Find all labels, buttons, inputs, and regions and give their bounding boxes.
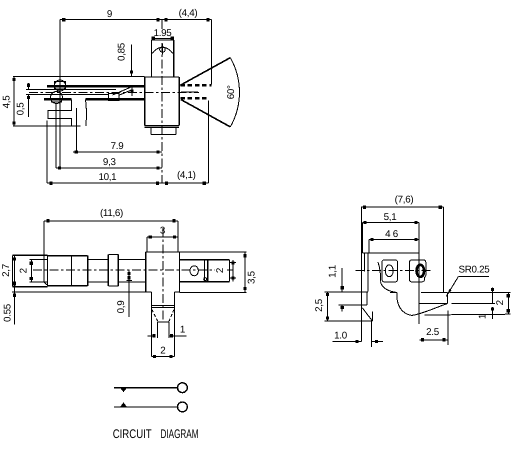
- VIEW1: fan arc: [230, 58, 239, 127]
- VIEW2: flange1 divider: [71, 256, 73, 286]
- VIEW2: plunger cone dashed left: [152, 310, 158, 322]
- VIEW1: body rect: [145, 77, 180, 128]
- VIEW1: bracket right edge: [85, 99, 88, 126]
- VIEW2: dimension 2 left: [19, 260, 33, 282]
- VIEW1: dimension 9,3: [56, 157, 162, 170]
- VIEW1: lower dashed lever line: [181, 97, 210, 100]
- VIEW3: SR0.25 leader diagonal: [446, 277, 458, 297]
- svg-text:2: 2: [19, 268, 30, 273]
- VIEW2: shaft between flanges bottom: [88, 281, 109, 283]
- VIEW3 side: dimension (7,6): [361, 194, 443, 209]
- VIEW1: contact spring diagonal a: [113, 87, 131, 95]
- svg-text:10,1: 10,1: [98, 172, 116, 183]
- VIEW1: extension line center top: [161, 20, 163, 30]
- VIEW2: lever shaft top line: [30, 259, 48, 261]
- svg-text:1.0: 1.0: [334, 331, 348, 342]
- VIEW2: shaft between flanges top: [88, 258, 109, 260]
- VIEW2: dimension 2 terminal: [215, 260, 236, 282]
- VIEW3: dimension 1 right: [478, 288, 495, 320]
- VIEW2: shaft to body top: [118, 258, 145, 260]
- VIEW3: tip bottom line: [325, 320, 373, 322]
- svg-text:(11,6): (11,6): [100, 208, 123, 219]
- VIEW2: body bottom right seg: [174, 291, 179, 293]
- svg-text:1: 1: [180, 325, 185, 336]
- VIEW1: extension (4,1) right: [207, 101, 209, 184]
- VIEW3: right ext line bottom: [425, 313, 511, 316]
- VIEW1: extension line left (pivot vertical): [59, 20, 61, 168]
- VIEW2: plunger tip ext left: [157, 322, 159, 338]
- VIEW3: bend top segment: [390, 292, 397, 294]
- VIEW1: short center solid line right: [181, 91, 198, 93]
- VIEW2: dimension 0.55: [3, 282, 17, 325]
- svg-text:0.55: 0.55: [3, 303, 14, 322]
- VIEW3: extension 5,1 left: [361, 223, 363, 253]
- VIEW2: plunger tip flat: [158, 321, 169, 323]
- VIEW3: foot right edge: [446, 293, 448, 304]
- VIEW1: bracket notch: [48, 99, 72, 126]
- VIEW1: lever thin line a: [26, 88, 116, 90]
- VIEW2: terminal bend squiggle: [204, 278, 207, 281]
- svg-text:4 6: 4 6: [385, 229, 399, 240]
- VIEW1: extension 7.9 left: [75, 108, 77, 152]
- VIEW3: dimension 4 6: [369, 229, 419, 241]
- svg-text:(4,4): (4,4): [179, 8, 198, 19]
- VIEW3: dimension 5,1: [362, 212, 419, 224]
- VIEW1: pivot circle lower: [51, 92, 63, 104]
- VIEW3: dimension 2,5 left: [314, 292, 329, 321]
- VIEW2: extension 3,5 top: [180, 251, 247, 253]
- VIEW1: fan lower diagonal: [181, 100, 230, 127]
- VIEW3: tip inner vertical: [366, 292, 368, 306]
- VIEW3: top edge: [362, 252, 419, 254]
- VIEW1: dimension 0,5: [16, 83, 31, 117]
- VIEW1: vertical centerline dash-dot: [161, 43, 163, 183]
- VIEW2: plunger cone dashed right: [169, 310, 174, 322]
- svg-text:2,5: 2,5: [314, 298, 325, 312]
- VIEW1 top: dimension 9: [60, 9, 212, 21]
- VIEW1: fan upper diagonal: [180, 58, 230, 86]
- VIEW3: foot underside rise: [412, 304, 448, 316]
- VIEW3: extension 2.5 bottom right: [447, 311, 449, 346]
- VIEW3: foot top line: [421, 292, 447, 294]
- svg-text:0,5: 0,5: [16, 102, 27, 116]
- VIEW3: dimension 2.5 bottom: [420, 327, 448, 342]
- CIRCUIT: contact arrow down: [120, 388, 127, 393]
- VIEW1: extension line right top: [211, 20, 213, 85]
- VIEW1: actuator dome arc: [152, 47, 173, 53]
- CIRCUIT: line 2: [114, 406, 178, 408]
- svg-text:(4,1): (4,1): [177, 170, 196, 181]
- VIEW1: extension 10,1 left: [46, 121, 48, 184]
- VIEW3: mounting plane line left: [325, 291, 368, 293]
- svg-text:5,1: 5,1: [384, 212, 397, 223]
- svg-text:CIRCUIT: CIRCUIT: [113, 427, 152, 441]
- VIEW2: terminal bend line a: [204, 260, 206, 282]
- VIEW2: dimension 3: [147, 225, 178, 238]
- VIEW1: pivot circle upper: [55, 80, 66, 91]
- VIEW3: tip lower left edge: [360, 292, 362, 322]
- svg-text:0,85: 0,85: [117, 42, 128, 61]
- VIEW3: extension 1.0 right: [371, 321, 373, 347]
- VIEW3: dimension 1,1: [328, 265, 344, 311]
- VIEW3: extension shared right through terminal: [418, 223, 420, 325]
- svg-text:3,5: 3,5: [247, 270, 258, 284]
- VIEW2: body rect: [146, 252, 180, 292]
- svg-text:1.95: 1.95: [154, 28, 173, 39]
- svg-text:9: 9: [107, 9, 112, 20]
- VIEW2 front: dimension (11,6): [44, 208, 178, 222]
- VIEW1: actuator tip circle: [160, 47, 166, 53]
- VIEW3: upright right edge: [367, 253, 369, 292]
- VIEW2: plunger tip ext right: [168, 322, 170, 338]
- VIEW3: horizontal centerline dash-dot: [356, 270, 433, 272]
- VIEW1: dimension (4,1): [162, 170, 208, 185]
- VIEW2: plunger step lines: [151, 306, 174, 308]
- VIEW1: base pedestal: [151, 128, 176, 135]
- CIRCUIT: contact arrow up: [120, 402, 127, 407]
- svg-text:2.5: 2.5: [426, 327, 440, 338]
- VIEW2: extension (11,6) right: [177, 221, 179, 252]
- svg-text:2: 2: [160, 345, 165, 356]
- VIEW1: horizontal centerline dash-dot: [29, 92, 199, 94]
- VIEW2: plunger right side: [173, 292, 175, 356]
- VIEW3: tip diagonal: [362, 308, 372, 321]
- VIEW3: terminal 2 oval hole bold: [417, 265, 425, 277]
- VIEW1: upper dashed lever line: [181, 84, 212, 87]
- VIEW1: lever lower thick line seg1: [44, 98, 72, 100]
- VIEW1: dimension 4,5: [2, 77, 16, 126]
- VIEW3: tip right edge: [371, 312, 373, 322]
- svg-text:4,5: 4,5: [2, 95, 13, 109]
- VIEW2: dimension 1 plunger tip: [148, 325, 187, 338]
- VIEW3: foot bend arc: [397, 293, 412, 316]
- VIEW2: body bottom long line: [12, 291, 151, 293]
- VIEW1: pivot lower chord: [51, 101, 62, 103]
- VIEW1: pivot clamp rect: [55, 82, 66, 90]
- VIEW1: actuator tip circle cross line: [162, 44, 164, 55]
- VIEW3: extension 4 6 left: [368, 240, 370, 253]
- VIEW1: bracket bottom line: [13, 125, 80, 127]
- VIEW3: right ext line top: [450, 292, 511, 294]
- svg-text:2: 2: [215, 268, 226, 273]
- VIEW2: dimension 2 plunger: [151, 345, 174, 358]
- VIEW2: plunger centerline dash-dot: [162, 228, 164, 322]
- VIEW3: terminal 1 rounded rect: [382, 260, 398, 282]
- VIEW3: SR0.25 leader arrowhead: [446, 289, 451, 297]
- VIEW2: extension (11,6) left foot diagonal: [44, 282, 47, 285]
- VIEW2: lever shaft bottom line: [30, 281, 48, 283]
- svg-text:60°: 60°: [226, 85, 237, 99]
- VIEW3: upright left edge: [360, 207, 362, 341]
- VIEW2: terminal hole circle: [190, 266, 198, 276]
- svg-text:1,1: 1,1: [328, 265, 339, 278]
- CIRCUIT: terminal circle 1: [178, 383, 188, 393]
- VIEW1: extension 9,3 left: [55, 103, 57, 168]
- VIEW2: dimension 3,5: [243, 252, 257, 293]
- CIRCUIT: line 1: [114, 387, 178, 389]
- VIEW1: dimension 7.9: [73, 141, 162, 154]
- VIEW2: extension 3 left: [146, 237, 148, 252]
- svg-text:1: 1: [478, 314, 489, 319]
- VIEW3: foot inner line: [420, 303, 448, 305]
- VIEW2: shaft to body bottom: [118, 281, 145, 283]
- VIEW1: contact spring diagonal b: [119, 90, 131, 95]
- VIEW2: terminal bend line b: [207, 260, 209, 282]
- VIEW1: actuator plunger rect: [152, 40, 174, 77]
- VIEW2: flange2 rect: [108, 255, 118, 287]
- svg-text:2,7: 2,7: [1, 264, 12, 277]
- svg-text:2: 2: [495, 300, 506, 305]
- VIEW3: lever arm curve lower: [381, 282, 397, 293]
- svg-text:9,3: 9,3: [103, 157, 117, 168]
- svg-text:SR0.25: SR0.25: [459, 265, 491, 276]
- VIEW3: terminal 1 oval hole: [385, 265, 393, 277]
- svg-text:(7,6): (7,6): [395, 194, 414, 205]
- VIEW1: top face long line: [13, 76, 145, 78]
- VIEW2: extension (11,6) left: [43, 221, 45, 282]
- VIEW3: extension (7,6) right: [443, 207, 445, 292]
- VIEW2: lever tip rect: [12, 255, 47, 286]
- VIEW1: contact box: [109, 93, 120, 100]
- VIEW1: dimension 10,1: [47, 172, 162, 185]
- VIEW3: tip mid line: [339, 304, 368, 306]
- VIEW1: lever lower thick line seg2: [86, 98, 145, 100]
- VIEW1: lever thin line b: [26, 93, 109, 95]
- VIEW2: dimension 0,9: [116, 270, 132, 317]
- VIEW2: dimension 2,7: [1, 255, 16, 286]
- VIEW1: dimension 1.95: [152, 28, 174, 40]
- VIEW2: extension 3,5 bottom: [180, 291, 247, 293]
- VIEW2: terminal outline: [180, 260, 230, 282]
- svg-text:7.9: 7.9: [111, 141, 124, 152]
- VIEW1: dimension 0,85: [117, 42, 134, 96]
- VIEW2: plunger left side: [150, 292, 152, 356]
- VIEW3: dimension 2 right: [495, 293, 510, 315]
- CIRCUIT: terminal circle 2: [178, 402, 188, 412]
- VIEW1: lever top thick line: [47, 85, 145, 87]
- VIEW3: lever arm curve: [378, 262, 381, 282]
- svg-text:0,9: 0,9: [116, 301, 127, 314]
- VIEW2: horizontal centerline dash-dot: [33, 269, 215, 271]
- VIEW3: terminal 2 rounded rect: [410, 260, 426, 282]
- svg-text:DIAGRAM: DIAGRAM: [161, 427, 199, 441]
- VIEW3: right ext line mid: [452, 303, 495, 305]
- VIEW3: SR0.25 leader underline: [458, 276, 489, 278]
- VIEW3: upright inner line: [364, 253, 366, 272]
- VIEW2: flange1 rect: [48, 256, 88, 286]
- VIEW3: dimension 1.0: [333, 331, 383, 344]
